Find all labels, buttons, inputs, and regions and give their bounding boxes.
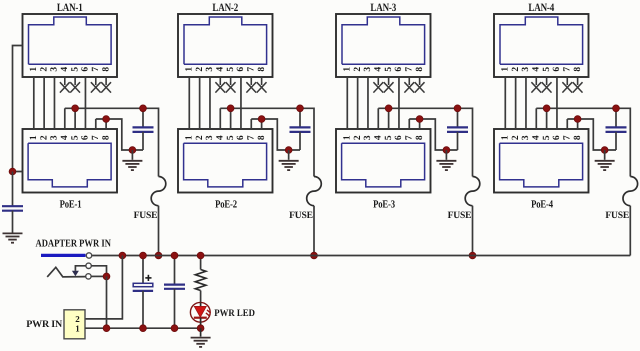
junction jack ground node — [103, 273, 110, 280]
junction PoE-4 pin 5 node — [543, 105, 550, 112]
wire +V power bus — [92, 255, 631, 257]
svg-text:5: 5 — [70, 67, 80, 72]
svg-text:4: 4 — [215, 135, 225, 140]
junction PoE-4 pin 8 node — [574, 116, 581, 123]
wire LAN-1 pin 1 to PoE-1 pin 1 — [33, 77, 35, 129]
svg-text:2: 2 — [195, 67, 205, 72]
no-connect X on LAN-2 pin 4 — [215, 77, 225, 93]
junction capacitor C2 top node — [297, 105, 304, 112]
svg-text:FUSE: FUSE — [134, 210, 158, 221]
svg-text:LAN-1: LAN-1 — [57, 2, 83, 14]
svg-text:LAN-3: LAN-3 — [370, 2, 396, 14]
wire fuse FUSE-1 to power bus — [158, 206, 160, 256]
no-connect X on LAN-1 pin 7 — [91, 77, 101, 93]
connector PoE-4 (RJ45 jack) — [494, 129, 589, 193]
svg-text:7: 7 — [562, 67, 572, 72]
wire ground rail — [85, 327, 201, 329]
ground port 1 — [131, 150, 133, 160]
fuse FUSE-2 — [307, 177, 322, 206]
svg-text:2: 2 — [39, 67, 49, 72]
svg-text:4: 4 — [215, 67, 225, 72]
svg-text:5: 5 — [542, 135, 552, 140]
svg-text:FUSE: FUSE — [289, 210, 313, 221]
junction fuse FUSE-2 bus node — [311, 252, 318, 259]
wire LAN-1 shield to PoE-1 shield — [13, 46, 23, 172]
svg-text:8: 8 — [101, 67, 111, 72]
no-connect X on LAN-2 pin 8 — [257, 77, 267, 93]
wire PoE-2 pin 5 drop — [230, 108, 232, 129]
svg-text:7: 7 — [246, 67, 256, 72]
fuse FUSE-1 — [151, 177, 166, 206]
svg-text:3: 3 — [363, 67, 373, 72]
svg-text:2: 2 — [511, 135, 521, 140]
no-connect X on LAN-3 pin 4 — [373, 77, 383, 93]
svg-text:6: 6 — [394, 67, 404, 72]
junction C6 bottom node — [140, 325, 147, 332]
svg-text:6: 6 — [552, 135, 562, 140]
svg-text:LAN-2: LAN-2 — [212, 2, 238, 14]
wire PoE-2 pin 4 drop — [219, 108, 221, 129]
wire PoE-1 pin 8 drop — [105, 119, 107, 129]
svg-text:5: 5 — [384, 67, 394, 72]
no-connect X on LAN-4 pin 5 — [542, 77, 552, 93]
ground port 3 — [445, 150, 447, 160]
wire PoE-4 pins 4/5 power tie bar to fuse — [536, 108, 630, 176]
connector LAN-4 (RJ45 jack) — [494, 14, 589, 77]
wire fuse FUSE-4 to power bus — [629, 206, 631, 256]
connector LAN-3 (RJ45 jack) — [336, 14, 431, 77]
svg-text:1: 1 — [184, 67, 194, 72]
wire PoE-1 pin 7 drop — [95, 119, 97, 129]
svg-text:7: 7 — [91, 135, 101, 140]
svg-text:1: 1 — [342, 67, 352, 72]
svg-text:ADAPTER PWR IN: ADAPTER PWR IN — [36, 238, 112, 249]
svg-text:PoE-1: PoE-1 — [60, 199, 82, 211]
svg-text:6: 6 — [236, 135, 246, 140]
wire PoE-1 pin 4 drop — [64, 108, 66, 129]
svg-text:2: 2 — [195, 135, 205, 140]
svg-text:1: 1 — [29, 135, 39, 140]
svg-text:3: 3 — [50, 135, 60, 140]
svg-text:1: 1 — [500, 67, 510, 72]
svg-text:6: 6 — [552, 67, 562, 72]
connector LAN-2 (RJ45 jack) — [178, 14, 273, 77]
no-connect X on LAN-2 pin 7 — [246, 77, 256, 93]
svg-text:6: 6 — [236, 67, 246, 72]
wire LAN-2 pin 1 to PoE-2 pin 1 — [188, 77, 190, 129]
svg-text:7: 7 — [91, 67, 101, 72]
connector PoE-2 (RJ45 jack) — [178, 129, 273, 193]
junction capacitor C1 top node — [140, 105, 147, 112]
svg-text:3: 3 — [50, 67, 60, 72]
connector J2 PWR IN terminal block — [64, 310, 85, 339]
wire LAN-2 pin 2 to PoE-2 pin 2 — [199, 77, 201, 129]
no-connect X on LAN-1 pin 8 — [101, 77, 111, 93]
svg-text:PWR IN: PWR IN — [26, 319, 63, 330]
junction C7 top node — [171, 252, 178, 259]
svg-text:6: 6 — [81, 135, 91, 140]
svg-text:1: 1 — [500, 135, 510, 140]
junction port 2 ground node — [285, 147, 292, 154]
wire LAN-3 pin 6 to PoE-3 pin 6 — [398, 77, 400, 129]
wire PoE-1 pin 5 drop — [74, 108, 76, 129]
svg-text:8: 8 — [415, 67, 425, 72]
junction ground rail / jack node — [103, 325, 110, 332]
svg-text:8: 8 — [573, 135, 583, 140]
fuse FUSE-4 — [623, 177, 638, 206]
wire LAN-4 pin 2 to PoE-4 pin 2 — [515, 77, 517, 129]
wire PoE-4 pins 7/8 ground tie bar — [567, 119, 616, 150]
svg-text:2: 2 — [511, 67, 521, 72]
ground port 4 — [604, 150, 606, 160]
wire LAN-3 pin 1 to PoE-3 pin 1 — [346, 77, 348, 129]
junction +V bus / PWR IN pin 2 node — [119, 252, 126, 259]
no-connect X on LAN-3 pin 5 — [384, 77, 394, 93]
svg-text:3: 3 — [363, 135, 373, 140]
svg-text:1: 1 — [184, 135, 194, 140]
junction PoE-3 pin 8 node — [416, 116, 423, 123]
wire LAN-4 pin 3 to PoE-4 pin 3 — [525, 77, 527, 129]
wire fuse FUSE-2 to power bus — [313, 206, 315, 256]
no-connect X on LAN-4 pin 7 — [562, 77, 572, 93]
svg-text:7: 7 — [246, 135, 256, 140]
wire PoE-1 pins 7/8 ground tie bar — [96, 119, 143, 150]
svg-text:LAN-4: LAN-4 — [528, 2, 554, 14]
no-connect X on LAN-2 pin 5 — [226, 77, 236, 93]
svg-text:8: 8 — [573, 67, 583, 72]
wire PoE-4 pin 8 drop — [577, 119, 579, 129]
no-connect X on LAN-3 pin 8 — [415, 77, 425, 93]
junction port 1 ground node — [129, 147, 136, 154]
wire PoE-2 pins 4/5 power tie bar to fuse — [220, 108, 314, 176]
junction fuse FUSE-1 bus node — [155, 252, 162, 259]
junction port 3 ground node — [443, 147, 450, 154]
svg-text:8: 8 — [257, 135, 267, 140]
svg-text:4: 4 — [60, 67, 70, 72]
junction fuse FUSE-3 bus node — [469, 252, 476, 259]
svg-text:2: 2 — [353, 135, 363, 140]
svg-text:3: 3 — [521, 135, 531, 140]
svg-text:PoE-4: PoE-4 — [531, 199, 553, 211]
wire PoE-3 pin 8 drop — [419, 119, 421, 129]
wire PoE-4 pin 4 drop — [535, 108, 537, 129]
wire PoE-4 pin 5 drop — [546, 108, 548, 129]
no-connect X on LAN-1 pin 5 — [70, 77, 80, 93]
svg-text:8: 8 — [415, 135, 425, 140]
wire jack ground drop to bottom rail — [106, 276, 108, 328]
svg-text:4: 4 — [531, 135, 541, 140]
wire LAN-1 pin 2 to PoE-1 pin 2 — [43, 77, 45, 129]
svg-text:5: 5 — [226, 135, 236, 140]
svg-text:4: 4 — [60, 135, 70, 140]
wire LAN-4 pin 6 to PoE-4 pin 6 — [556, 77, 558, 129]
wire PoE-2 pins 7/8 ground tie bar — [251, 119, 300, 150]
junction LED cathode / ground rail node — [197, 325, 204, 332]
svg-text:1: 1 — [75, 323, 80, 333]
wire PoE-3 pin 5 drop — [388, 108, 390, 129]
junction PoE-2 pin 8 node — [258, 116, 265, 123]
wire PoE-3 pins 7/8 ground tie bar — [409, 119, 457, 150]
no-connect X on LAN-1 pin 4 — [60, 77, 70, 93]
wire PoE-3 pin 4 drop — [377, 108, 379, 129]
LED D1 PWR LED — [190, 302, 210, 328]
wire PWR IN pin 2 riser — [85, 256, 122, 319]
wire PoE-3 pins 4/5 power tie bar to fuse — [378, 108, 472, 176]
capacitor C1 (port 1 bypass) — [133, 108, 154, 150]
svg-text:2: 2 — [39, 135, 49, 140]
ground LED / rail — [200, 328, 202, 336]
wire PoE-4 pin 7 drop — [566, 119, 568, 129]
ground port 2 — [288, 150, 290, 160]
connector LAN-1 (RJ45 jack) — [23, 14, 118, 77]
wire LAN-3 pin 3 to PoE-3 pin 3 — [367, 77, 369, 129]
svg-text:PWR LED: PWR LED — [214, 308, 255, 319]
svg-text:5: 5 — [384, 135, 394, 140]
junction capacitor C3 top node — [454, 105, 461, 112]
svg-text:1: 1 — [29, 67, 39, 72]
svg-text:3: 3 — [521, 67, 531, 72]
svg-text:7: 7 — [404, 67, 414, 72]
capacitor C7 ceramic filter — [164, 256, 185, 329]
svg-text:4: 4 — [531, 67, 541, 72]
wire LAN-2 pin 3 to PoE-2 pin 3 — [209, 77, 211, 129]
svg-text:PoE-3: PoE-3 — [373, 199, 395, 211]
no-connect X on LAN-4 pin 4 — [531, 77, 541, 93]
capacitor C2 (port 2 bypass) — [290, 108, 311, 150]
svg-text:7: 7 — [562, 135, 572, 140]
wire LAN-4 pin 1 to PoE-4 pin 1 — [504, 77, 506, 129]
svg-text:5: 5 — [70, 135, 80, 140]
connector PoE-3 (RJ45 jack) — [336, 129, 431, 193]
junction R1 top node — [197, 252, 204, 259]
capacitor C4 (port 4 bypass) — [606, 108, 627, 150]
svg-text:3: 3 — [205, 135, 215, 140]
wire PoE-2 pin 7 drop — [250, 119, 252, 129]
svg-text:8: 8 — [257, 67, 267, 72]
svg-text:4: 4 — [373, 67, 383, 72]
junction capacitor C4 top node — [613, 105, 620, 112]
junction PoE-2 pin 5 node — [227, 105, 234, 112]
no-connect X on LAN-3 pin 7 — [404, 77, 414, 93]
wire LAN-2 pin 6 to PoE-2 pin 6 — [240, 77, 242, 129]
capacitor C5 (shield bypass) — [2, 172, 23, 233]
wire jack switch terminal to ground rail — [91, 266, 106, 277]
junction PoE-1 pin 5 node — [72, 105, 79, 112]
svg-text:5: 5 — [542, 67, 552, 72]
connector J1 DC barrel jack — [41, 253, 92, 279]
junction PoE-3 pin 5 node — [385, 105, 392, 112]
wire LAN-1 pin 6 to PoE-1 pin 6 — [84, 77, 86, 129]
wire PoE-3 pin 7 drop — [408, 119, 410, 129]
svg-text:3: 3 — [205, 67, 215, 72]
svg-text:7: 7 — [404, 135, 414, 140]
wire LAN-3 pin 2 to PoE-3 pin 2 — [357, 77, 359, 129]
svg-text:FUSE: FUSE — [605, 210, 629, 221]
svg-text:1: 1 — [342, 135, 352, 140]
svg-text:FUSE: FUSE — [448, 210, 472, 221]
ground shield — [3, 233, 23, 242]
connector PoE-1 (RJ45 jack) — [23, 129, 118, 193]
svg-text:6: 6 — [81, 67, 91, 72]
capacitor C3 (port 3 bypass) — [447, 108, 468, 150]
svg-text:PoE-2: PoE-2 — [215, 199, 237, 211]
svg-text:2: 2 — [75, 314, 80, 324]
wire fuse FUSE-3 to power bus — [472, 206, 474, 256]
resistor R1 (LED current limit) — [195, 256, 205, 303]
fuse FUSE-3 — [465, 177, 480, 206]
junction port 4 ground node — [601, 147, 608, 154]
no-connect X on LAN-4 pin 8 — [573, 77, 583, 93]
capacitor C6 electrolytic filter — [133, 256, 153, 329]
junction PoE-1 pin 8 node — [103, 116, 110, 123]
wire PoE-1 pins 4/5 power tie bar to fuse — [65, 108, 159, 176]
wire PoE-2 pin 8 drop — [261, 119, 263, 129]
wire LAN-1 pin 3 to PoE-1 pin 3 — [53, 77, 55, 129]
svg-text:6: 6 — [394, 135, 404, 140]
svg-text:8: 8 — [101, 135, 111, 140]
junction C7 bottom node — [171, 325, 178, 332]
svg-text:4: 4 — [373, 135, 383, 140]
wire jack sleeve terminal to ground rail — [91, 275, 106, 277]
svg-text:2: 2 — [353, 67, 363, 72]
junction C6 top node — [140, 252, 147, 259]
junction shield node — [9, 168, 16, 175]
svg-text:5: 5 — [226, 67, 236, 72]
